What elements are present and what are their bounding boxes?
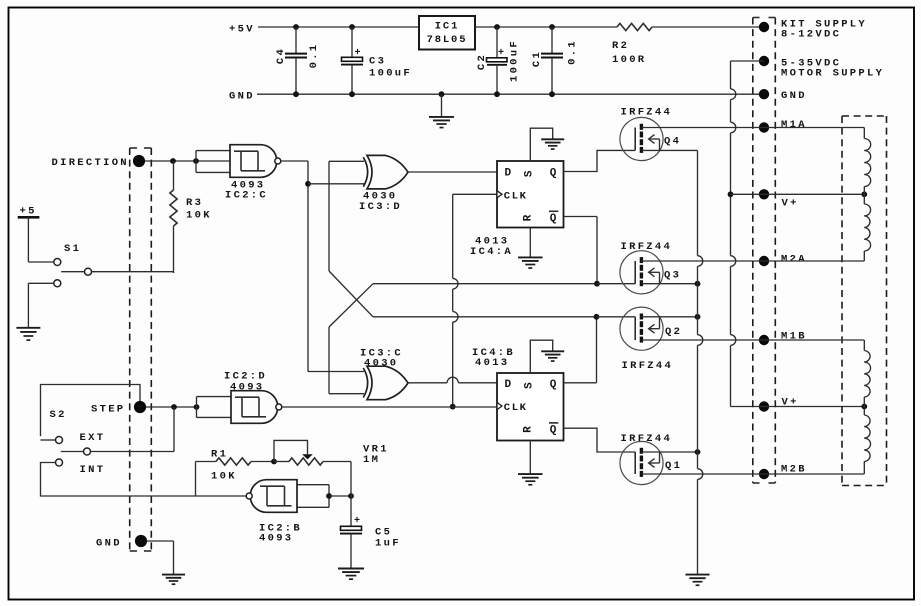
flip-flop IC4:A 4013 [470, 161, 564, 258]
inductor winding 2A [864, 204, 870, 251]
wire IC2:C output [281, 160, 308, 162]
wire V+ lower tap [764, 404, 867, 410]
svg-text:S1: S1 [64, 243, 81, 255]
wire +5V rail right [475, 24, 764, 30]
terminal STEP [91, 401, 146, 416]
wire V+ upper tap [764, 191, 867, 197]
wire Q4 source to rail [643, 149, 698, 151]
terminal V+ upper [759, 189, 799, 209]
wire net A horizontal [373, 283, 597, 285]
svg-text:8-12VDC: 8-12VDC [781, 29, 841, 41]
wire GND terminal [147, 541, 174, 574]
svg-text:GND: GND [229, 91, 255, 103]
wire +5V rail left [258, 24, 419, 30]
svg-text:10K: 10K [186, 210, 212, 222]
capacitor C5 [340, 496, 401, 568]
wire M1A to coil [764, 128, 864, 139]
ground GND terminal [162, 575, 185, 585]
wire coil to M2B [764, 462, 864, 475]
svg-text:Q3: Q3 [664, 270, 681, 282]
wire IC3:D out to D input [409, 171, 498, 173]
svg-text:S2: S2 [50, 409, 67, 421]
terminal M2A [759, 254, 807, 267]
svg-text:IC2:C: IC2:C [225, 190, 268, 202]
svg-text:1M: 1M [363, 454, 380, 466]
ground IC1 [429, 94, 454, 127]
svg-text:Q: Q [550, 167, 557, 179]
xor gate IC3:D 4030 [359, 155, 408, 213]
ground IC4:B set [541, 351, 564, 361]
wire Q2 drain to M1B [643, 339, 764, 341]
svg-text:MOTOR SUPPLY: MOTOR SUPPLY [781, 68, 884, 80]
wire M1B to coil [764, 340, 864, 351]
node GND label [229, 91, 255, 103]
wire coil tap lower [863, 397, 865, 415]
inductor winding 1A [864, 139, 870, 187]
wire IC2:D output to CLK [282, 406, 497, 408]
terminal GND [759, 89, 807, 102]
nand gate IC2:C 4093 [196, 145, 281, 202]
svg-text:IRFZ44: IRFZ44 [622, 360, 674, 372]
motor dashed box [842, 116, 887, 486]
svg-text:R2: R2 [612, 40, 629, 52]
svg-text:R1: R1 [211, 449, 228, 461]
svg-text:DIRECTION: DIRECTION [52, 157, 129, 169]
power +5 switch S1 [18, 206, 54, 263]
terminal M1B [759, 331, 807, 346]
svg-text:+5: +5 [20, 206, 37, 218]
resistor R3 [170, 161, 212, 273]
svg-text:M1B: M1B [781, 331, 807, 343]
svg-text:+5V: +5V [229, 24, 255, 36]
transistor Q1 IRFZ44 [620, 433, 682, 485]
terminal 5-35VDC [759, 56, 884, 80]
svg-text:+: + [354, 516, 360, 527]
node +5V label [229, 24, 255, 36]
svg-text:100R: 100R [612, 54, 646, 66]
wire to IC3:D lower input [308, 183, 364, 185]
wire IC4:B R to ground [529, 441, 531, 474]
xor gate IC3:C 4030 [360, 348, 408, 400]
connector input dashed box [130, 148, 152, 551]
svg-text:10K: 10K [211, 471, 237, 483]
resistor R1 [196, 449, 277, 497]
capacitor C4 [275, 27, 320, 94]
svg-text:C4: C4 [275, 47, 287, 64]
nand gate IC2:B 4093 [246, 480, 332, 545]
switch S1 [54, 243, 92, 287]
svg-text:S: S [524, 170, 536, 177]
wire S1 pole to R3 [92, 272, 174, 273]
svg-text:4093: 4093 [259, 533, 293, 545]
inductor winding 2B [864, 415, 870, 462]
svg-text:R: R [523, 214, 535, 221]
wire net B vertical [328, 161, 330, 271]
wire IC4:A Q to Q4 gate [564, 150, 636, 171]
switch S2 [41, 437, 91, 467]
wire Q1 drain to M2B [643, 473, 764, 475]
svg-text:GND: GND [96, 538, 122, 550]
wire Q3 drain to M2A [643, 260, 764, 262]
wire GND rail [257, 91, 764, 97]
svg-text:C2: C2 [476, 53, 488, 70]
transistor Q4 IRFZ44 [620, 107, 681, 161]
transistor Q2 IRFZ44 [620, 307, 682, 372]
svg-text:IC4:A: IC4:A [470, 246, 513, 258]
wire IC4:A S to ground [530, 128, 552, 161]
transistor Q3 IRFZ44 [620, 241, 681, 294]
wire IC4:B Q to Q2 gate [564, 314, 636, 383]
svg-text:C3: C3 [369, 56, 386, 68]
ground IC4:A set [541, 139, 564, 149]
svg-text:1uF: 1uF [375, 538, 401, 550]
wire IC4:A CLK [453, 193, 497, 195]
svg-text:S: S [524, 382, 536, 389]
regulator IC1 78L05 [419, 16, 475, 50]
svg-text:IRFZ44: IRFZ44 [621, 241, 673, 253]
inductor winding 1B [864, 351, 870, 398]
svg-text:R: R [523, 426, 535, 433]
svg-text:GND: GND [781, 90, 807, 102]
wire net B diagonal [329, 271, 373, 317]
rail CLK vertical [450, 194, 458, 409]
capacitor C2 [476, 27, 521, 94]
wire VR1 to C5 [350, 462, 352, 497]
terminal DIRECTION [52, 155, 146, 169]
wire net A vertical [329, 327, 364, 394]
capacitor C1 [531, 27, 579, 94]
wire IC4:A R to ground [529, 228, 531, 258]
svg-text:M2A: M2A [781, 254, 807, 266]
terminal GND input [96, 535, 147, 550]
wire Q2 source to rail [643, 314, 700, 320]
wire net B horizontal [373, 316, 597, 318]
wire gate out down to IC3:C [305, 161, 311, 372]
svg-text:IC3:D: IC3:D [359, 201, 402, 213]
wire coil to M2A [764, 251, 864, 261]
wire net A diagonal [329, 284, 373, 327]
wire IC3:D upper input [329, 160, 364, 162]
wire IC4:B S to ground [530, 340, 552, 373]
wire 5-35VDC to V+ rail [728, 61, 764, 407]
terminal M1A [759, 119, 807, 133]
connector kit-supply dashed box [753, 18, 776, 484]
svg-text:D: D [505, 167, 512, 179]
svg-text:CLK: CLK [504, 402, 528, 414]
wire S2 pole to STEP line [91, 407, 174, 452]
svg-text:Q: Q [550, 213, 557, 225]
wire Q3 source to rail [643, 281, 700, 287]
trimpot VR1 [274, 440, 389, 466]
svg-text:R3: R3 [186, 197, 203, 209]
svg-text:STEP: STEP [91, 404, 125, 416]
wire Q1 source to rail [643, 449, 700, 455]
switch S2 labels [50, 409, 106, 476]
nand gate IC2:D 4093 [197, 371, 282, 424]
wire coil tap upper [863, 187, 865, 205]
svg-text:100uF: 100uF [509, 39, 521, 82]
svg-text:M1A: M1A [781, 119, 807, 131]
svg-text:CLK: CLK [504, 190, 528, 202]
capacitor C3 [341, 27, 412, 94]
wire IC3:C out to D input [409, 377, 498, 383]
ground common source rail [686, 575, 710, 586]
svg-text:Q4: Q4 [664, 136, 681, 148]
wire IC2:B inputs to C5 [329, 493, 354, 499]
svg-text:EXT: EXT [80, 432, 106, 444]
svg-text:78L05: 78L05 [427, 34, 468, 46]
terminal KIT SUPPLY [759, 19, 867, 41]
svg-text:D: D [505, 379, 512, 391]
svg-text:4030: 4030 [364, 358, 398, 370]
svg-text:100uF: 100uF [369, 68, 412, 80]
wire EXT to STEP [41, 385, 141, 437]
wire Q4 drain to M1A [643, 127, 764, 129]
svg-text:C1: C1 [531, 50, 543, 67]
svg-text:V+: V+ [782, 198, 799, 210]
wire S1 to ground [28, 283, 53, 327]
svg-text:IRFZ44: IRFZ44 [621, 433, 673, 445]
svg-text:Q2: Q2 [665, 326, 682, 338]
wire INT to oscillator [41, 463, 196, 497]
wire IC3:C upper input [308, 371, 364, 373]
wire DIRECTION to gate [145, 158, 230, 164]
svg-text:4013: 4013 [475, 357, 509, 369]
svg-text:Q1: Q1 [665, 460, 682, 472]
ground IC4:B reset [518, 474, 543, 485]
rail common source [698, 150, 703, 574]
svg-text:Q: Q [550, 379, 557, 391]
wire IC4:B Qbar to Q1 gate [564, 428, 636, 452]
svg-text:IC1: IC1 [435, 21, 459, 33]
terminal V+ lower [759, 397, 799, 412]
svg-text:0.1: 0.1 [567, 39, 579, 65]
svg-text:IRFZ44: IRFZ44 [621, 107, 673, 119]
svg-text:0.1: 0.1 [308, 43, 320, 69]
wire IC4:A Qbar to Q3 gate [564, 217, 636, 287]
ground C5 [338, 569, 364, 580]
wire IC2:B output [196, 495, 247, 497]
flip-flop IC4:B 4013 [472, 347, 564, 441]
resistor R2 [612, 23, 652, 66]
svg-text:Q: Q [550, 425, 557, 437]
terminal M2B [759, 464, 807, 480]
ground IC4:A reset [518, 257, 543, 268]
svg-text:INT: INT [80, 464, 106, 476]
wire STEP to gate [146, 404, 199, 410]
ground S1 [16, 328, 40, 340]
svg-text:4093: 4093 [230, 382, 264, 394]
